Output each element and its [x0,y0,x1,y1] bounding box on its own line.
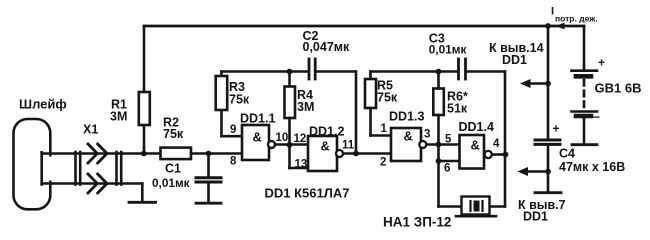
svg-text:GB1 6В: GB1 6В [595,81,642,96]
wire: R2 right to DD1.1 pin8 [191,152,242,155]
wire: loop bottom to corner [42,182,143,185]
svg-text:8: 8 [230,156,237,168]
wire: main signal line y=153.5 [75,152,161,155]
svg-text:10: 10 [276,132,289,144]
capacitor C1 [207,154,210,178]
wire: loop top to connector [42,152,75,155]
resistor R6 body [433,89,444,116]
svg-text:DD1.3: DD1.3 [389,110,424,124]
resistor R3 body [216,76,228,110]
svg-text:Шлейф: Шлейф [19,97,67,112]
current arrow [556,23,565,30]
svg-text:3М: 3М [297,100,314,114]
junction node DD1.1 out / R4 / pins 12-13 [287,142,293,148]
junction pin 6 tap [436,158,442,164]
svg-text:C1: C1 [165,162,181,176]
junction R4 top on rail 1 [287,69,293,75]
svg-text:0,01мк: 0,01мк [152,176,190,190]
svg-text:6: 6 [444,163,450,175]
svg-text:&: & [253,130,262,145]
loop notch erase [47,157,55,181]
ground bar C1 [196,202,221,205]
svg-text:51к: 51к [447,102,468,116]
battery GB1 [583,26,586,69]
connector X1 bars right [115,152,118,185]
svg-text:DD1.2: DD1.2 [309,125,344,139]
junction C1 top [206,151,212,157]
connector X1 bars left [74,152,77,185]
svg-text:DD1 К561ЛА7: DD1 К561ЛА7 [265,186,350,201]
svg-text:75к: 75к [163,127,184,141]
wire: C2 right down to out11 node [355,72,358,154]
svg-text:5: 5 [445,134,452,146]
junction R1 bottom [141,151,147,157]
svg-text:75к: 75к [229,93,250,107]
connector X1 chevrons bottom [88,174,97,193]
supply rail x=548 [547,26,550,139]
junction C4 / pin 7 branch [545,169,551,175]
capacitor C4 plates [535,139,560,142]
wire: loop bottom down [141,184,144,202]
resistor R1 body [139,92,150,125]
buzzer base bar [456,215,496,218]
svg-text:11: 11 [342,140,355,152]
svg-text:3: 3 [424,129,430,141]
arrow to pin7 [518,167,529,176]
ground bar loop [129,201,156,204]
arrow wire pin14 [529,82,548,85]
loop notch bar [40,152,43,184]
wire: R4 down to gate node and pin13 [288,118,291,168]
svg-text:0,01мк: 0,01мк [429,43,467,57]
capacitor C3 [457,59,460,79]
resistor R1 leads [143,26,146,92]
svg-text:3М: 3М [110,110,127,124]
battery minus bar [572,143,597,146]
junction node DD1.3 out / R6 / pin 5 [436,142,442,148]
svg-text:13: 13 [295,159,308,171]
RC rail 2 [371,70,458,73]
svg-text:+: + [553,122,560,136]
svg-text:12: 12 [294,133,307,145]
resistor R2 body [161,148,192,160]
resistor R4 body [285,87,296,119]
top supply wire [144,25,584,28]
gate DD1.2 [308,136,337,171]
svg-text:НА1 ЗП-12: НА1 ЗП-12 [383,215,451,230]
wire: out4 node down to buzzer right [504,155,507,207]
connector X1 chevrons top [88,144,97,163]
svg-text:−: − [593,110,600,124]
resistor R3 leads [220,110,223,136]
arrow wire pin7 [528,170,548,173]
capacitor C2 [308,59,311,79]
svg-text:&: & [321,139,330,154]
wire: R5 down to pin1 [369,108,372,136]
svg-text:I: I [551,6,554,18]
gate DD1.1 [242,125,269,160]
svg-text:&: & [404,129,413,144]
gate DD1.3 [391,128,421,161]
svg-text:X1: X1 [83,123,98,137]
svg-text:потр. деж.: потр. деж. [555,14,598,24]
svg-text:DD1: DD1 [502,53,527,67]
junction pin 14 branch [545,81,551,87]
svg-text:47мк х 16В: 47мк х 16В [559,160,625,174]
svg-text:1: 1 [381,123,388,135]
svg-text:9: 9 [230,124,236,136]
svg-text:&: & [471,138,480,153]
loop (Шлейф) body [14,119,51,209]
svg-text:2: 2 [380,157,386,169]
svg-text:75к: 75к [377,91,398,105]
buzzer HA1 body [462,197,490,215]
svg-text:0,047мк: 0,047мк [303,40,351,54]
gate DD1.4 [460,135,485,169]
RC rail 1 [222,70,308,73]
svg-text:DD1.4: DD1.4 [459,120,494,134]
arrow to pin14 [520,79,531,88]
svg-text:4: 4 [493,138,500,150]
svg-text:DD1: DD1 [523,210,548,224]
junction node DD1.2 out / C2 [353,151,359,157]
wire: C3 right down to out4 node [504,72,507,155]
wire: R6 down to out3 node, pin6, buzzer [437,115,440,207]
svg-text:+: + [598,56,605,70]
junction R6 top on rail 2 [436,69,442,75]
junction node DD1.4 out / C3 / buzzer [503,152,509,158]
svg-text:DD1.1: DD1.1 [240,112,275,126]
junction supply rail at top wire [545,23,551,29]
svg-text:C4: C4 [559,147,575,161]
resistor R5 body [365,79,376,108]
ground bar below C4 [535,191,561,194]
